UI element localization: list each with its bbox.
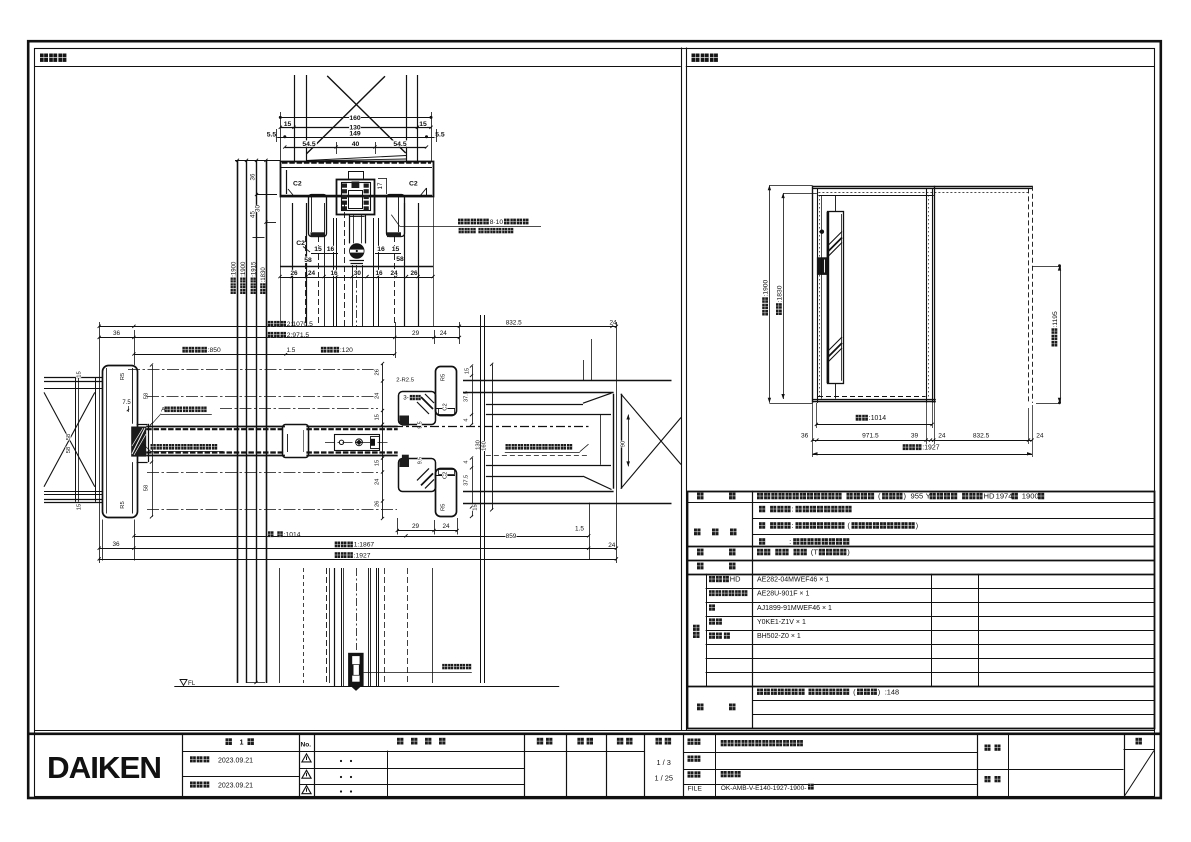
hanger stem and roller bolt xyxy=(349,214,351,243)
recessed pull handle in plan xyxy=(283,425,309,458)
panel bottom edge line xyxy=(280,266,433,268)
svg-text:8·10: 8·10 xyxy=(490,219,504,226)
svg-text:39: 39 xyxy=(911,432,919,439)
svg-text::: : xyxy=(789,537,791,546)
svg-text::1927: :1927 xyxy=(354,552,371,559)
spec table vertical lines xyxy=(752,491,754,729)
FL level mark xyxy=(180,680,187,686)
name content xyxy=(721,740,727,746)
parts rows xyxy=(709,576,715,582)
svg-text:29: 29 xyxy=(412,523,420,530)
svg-text:36: 36 xyxy=(113,330,121,337)
left side channel profile xyxy=(309,195,327,237)
revision dots rows xyxy=(340,760,342,762)
svg-text::148: :148 xyxy=(885,687,899,696)
svg-text::1915: :1915 xyxy=(250,261,257,277)
pocket mouth vertical xyxy=(492,364,494,510)
left X-braced wall end xyxy=(75,377,77,502)
svg-text:58: 58 xyxy=(66,434,72,440)
spec table outer xyxy=(688,492,1155,729)
seitei-bi row xyxy=(190,756,196,762)
svg-text::: : xyxy=(792,505,794,514)
leaf centerline stubs xyxy=(835,195,837,211)
jamb labels xyxy=(119,373,124,380)
pocket end dim 90 xyxy=(628,415,630,467)
tall section marker verticals with 130/160 labels xyxy=(480,315,482,683)
svg-text:24: 24 xyxy=(390,270,398,277)
guide pin label with leader xyxy=(442,664,447,669)
svg-text::1014: :1014 xyxy=(869,415,886,422)
warning triangles xyxy=(302,754,311,762)
title block top thick line xyxy=(28,732,1161,735)
top section: wall stud verticals right pair xyxy=(406,75,408,161)
remarks (bikou) xyxy=(697,704,704,711)
svg-text:1.5: 1.5 xyxy=(286,347,295,354)
label shomenzu (front view title) xyxy=(692,54,700,62)
rotated height labels column xyxy=(230,261,237,294)
svg-text:54.5: 54.5 xyxy=(302,141,315,148)
svg-text:15: 15 xyxy=(374,414,380,420)
header: dai 1 han xyxy=(226,738,232,745)
svg-text:1.5: 1.5 xyxy=(575,526,584,533)
svg-text:9.5: 9.5 xyxy=(417,457,423,464)
panel divider right line xyxy=(686,48,688,731)
panels bottom line xyxy=(35,730,1155,732)
row: omote gu xyxy=(697,563,704,570)
svg-text:16: 16 xyxy=(327,246,335,253)
svg-text:1 / 3: 1 / 3 xyxy=(657,758,671,767)
page cell diagonal xyxy=(1125,751,1155,797)
svg-text:15: 15 xyxy=(284,121,292,128)
right dim chain of center assembly xyxy=(472,366,474,425)
svg-text:26: 26 xyxy=(374,501,380,507)
svg-text:15: 15 xyxy=(473,504,479,510)
upper pocket entrance stud xyxy=(436,367,457,416)
leaf glass hatch bottom xyxy=(828,343,842,357)
svg-text:2023.09.21: 2023.09.21 xyxy=(218,757,253,764)
row: handle (totte) xyxy=(697,549,704,556)
lower latch bracket xyxy=(399,459,436,492)
svg-text:2023.09.21: 2023.09.21 xyxy=(218,783,253,790)
shounin / kakunin / sakusei / shukushaku headers xyxy=(537,738,543,745)
elevation: far right dashed pocket end xyxy=(1028,188,1030,403)
svg-text:58: 58 xyxy=(144,393,150,399)
svg-text:24: 24 xyxy=(938,432,946,439)
dimension line 149 with 5.5 5.5 xyxy=(276,137,436,139)
leaf pivot dot xyxy=(820,230,824,234)
svg-text:C2: C2 xyxy=(443,403,449,410)
lower hidden lines dash-dot xyxy=(147,472,378,474)
svg-text:5.5: 5.5 xyxy=(267,132,277,139)
svg-text:C2: C2 xyxy=(296,240,305,247)
kaitei-bi row xyxy=(190,782,196,788)
svg-text:HD: HD xyxy=(730,575,741,584)
elevation: left jamb xyxy=(812,186,814,403)
svg-text:36: 36 xyxy=(250,173,257,180)
door panel faces in plan xyxy=(146,426,285,428)
title block horizontals xyxy=(183,751,645,753)
jamb pocket mouth xyxy=(137,424,148,426)
page header xyxy=(1136,738,1142,745)
panel divider left line xyxy=(681,48,683,731)
svg-text:24: 24 xyxy=(608,542,616,549)
effective width dim line 1867 xyxy=(99,548,616,550)
door end cap (hatched) xyxy=(131,427,146,457)
svg-text:OK-AMB-V-E140-1927-1900-: OK-AMB-V-E140-1927-1900- xyxy=(721,785,807,792)
dim line 36/971.5/39/24/832.5/24 xyxy=(813,440,1033,442)
svg-text:15: 15 xyxy=(464,368,470,374)
pocket end cap verticals xyxy=(613,394,615,489)
center frame dim chain vertical xyxy=(382,364,384,519)
svg-text:AE282-04MWEF46 × 1: AE282-04MWEF46 × 1 xyxy=(757,577,829,584)
elevation: opening right stile xyxy=(926,188,928,403)
svg-text:24: 24 xyxy=(374,392,380,399)
svg-text:160: 160 xyxy=(349,115,361,122)
rotated dim labels 36 45 30 xyxy=(250,173,256,180)
slanted board above rail box xyxy=(307,156,407,161)
dimension line 130 with 15 15 xyxy=(280,127,431,129)
svg-text:4: 4 xyxy=(463,418,469,421)
row: model (katashiki) xyxy=(697,493,704,500)
svg-text:FILE: FILE xyxy=(688,786,703,793)
svg-text::1014: :1014 xyxy=(284,532,301,539)
elevation: door leaf xyxy=(828,212,844,384)
svg-text:1 / 25: 1 / 25 xyxy=(654,774,673,783)
svg-text:36: 36 xyxy=(112,541,120,548)
svg-text:4: 4 xyxy=(463,460,469,463)
elevation: bottom lines xyxy=(818,396,926,398)
hanger note label with leader xyxy=(391,215,399,227)
svg-text::1900: :1900 xyxy=(230,261,237,277)
svg-text:C2: C2 xyxy=(409,181,418,188)
svg-text:58: 58 xyxy=(66,447,72,453)
left jamb frame profile xyxy=(103,366,138,518)
cap note label (door end) xyxy=(151,444,156,450)
svg-text:26: 26 xyxy=(290,270,298,277)
lock plate with screw circles xyxy=(335,435,380,451)
dim: effective height 1195 (right) xyxy=(1060,266,1062,403)
floor guide pin detail xyxy=(348,653,364,687)
svg-text:2:1070.5: 2:1070.5 xyxy=(287,321,313,328)
svg-text:1:1867: 1:1867 xyxy=(354,542,375,549)
left wall double lines top xyxy=(44,377,102,379)
svg-text:859: 859 xyxy=(506,533,517,540)
svg-text:30: 30 xyxy=(255,205,262,212)
svg-text:15: 15 xyxy=(77,504,83,510)
svg-text:R5: R5 xyxy=(120,501,126,508)
svg-text:1900: 1900 xyxy=(1022,492,1039,501)
right X-braced wall xyxy=(621,394,681,465)
left vertical dimension chain lines xyxy=(237,160,239,683)
svg-text:AJ1899-91MWEF46 × 1: AJ1899-91MWEF46 × 1 xyxy=(757,605,832,612)
svg-text::850: :850 xyxy=(208,347,221,354)
plan top dim line 3 (850 / 1.5 / 120) xyxy=(134,354,395,356)
rail teeth left and right xyxy=(342,184,347,188)
dimension line 26 24 16 30 16 24 26 xyxy=(280,277,433,279)
svg-text:16: 16 xyxy=(377,246,385,253)
svg-text::1927: :1927 xyxy=(922,445,939,452)
inner width dim line 1927 xyxy=(99,559,616,561)
svg-text:36: 36 xyxy=(801,432,809,439)
pocket cap note label xyxy=(506,444,511,450)
svg-text:24: 24 xyxy=(440,330,448,337)
svg-text:): ) xyxy=(878,687,880,696)
svg-text:40: 40 xyxy=(352,141,360,148)
svg-text:15: 15 xyxy=(419,121,427,128)
top section: X cross brace xyxy=(327,76,406,153)
bottom section verticals (wall and door continue) xyxy=(279,568,281,683)
left header underline xyxy=(35,66,681,68)
svg-text:(T: (T xyxy=(811,548,819,557)
door width dim line 1014 / 859 xyxy=(134,536,589,538)
verticals continuing below rail box xyxy=(280,197,282,327)
pocket top extension stubs xyxy=(583,360,585,380)
svg-text:1: 1 xyxy=(240,738,244,747)
parts list group label (rotated) xyxy=(693,625,700,638)
svg-text:29: 29 xyxy=(412,330,420,337)
rail centerline dash-dot xyxy=(128,369,376,371)
leaf glass hatch top xyxy=(828,238,842,252)
svg-text:2:971.5: 2:971.5 xyxy=(287,332,310,339)
plan top dim line 1 (1070.5 / 832.5 / 24) xyxy=(99,326,616,328)
left wall double lines bottom xyxy=(44,491,102,493)
dimension line 160 xyxy=(280,117,431,119)
svg-text:971.5: 971.5 xyxy=(862,432,879,439)
spec table horizontal lines xyxy=(687,502,1155,504)
top section: wall stud verticals left pair xyxy=(294,75,296,161)
small arrow near FL xyxy=(247,682,265,684)
elevation: top rail xyxy=(813,186,1033,188)
svg-text:24: 24 xyxy=(308,270,316,277)
kenmei / zuin labels xyxy=(985,745,991,751)
svg-text:3-: 3- xyxy=(403,395,409,402)
dim pair 29 24 below plan xyxy=(397,530,457,532)
jamb inner right wall lines xyxy=(132,368,134,424)
svg-text:54.5: 54.5 xyxy=(393,141,406,148)
svg-text:C2: C2 xyxy=(443,472,449,479)
svg-text::: : xyxy=(792,521,794,530)
svg-text:26: 26 xyxy=(410,270,418,277)
dim: door height 1830 xyxy=(783,193,785,399)
latch hook pieces xyxy=(402,416,409,426)
upper hidden lines dash-dot xyxy=(147,396,378,398)
svg-text:15: 15 xyxy=(374,460,380,466)
svg-text::1195: :1195 xyxy=(1052,311,1059,328)
plan top dim line 2 (971.5 / 29 / 24) xyxy=(99,337,459,339)
svg-text:17: 17 xyxy=(377,182,384,189)
label danmenzu (section view title) xyxy=(40,54,48,62)
svg-text:832.5: 832.5 xyxy=(506,320,522,327)
door panel skins (thick dashed) xyxy=(146,428,285,430)
top rail box (hanging rail housing) xyxy=(281,162,434,197)
svg-text::1830: :1830 xyxy=(260,267,267,283)
svg-text:C2: C2 xyxy=(293,181,302,188)
lower pocket entrance stud xyxy=(436,469,457,517)
svg-text:15: 15 xyxy=(77,371,83,377)
right header underline xyxy=(686,66,1155,68)
svg-text:16: 16 xyxy=(375,270,383,277)
svg-text:130: 130 xyxy=(475,440,481,450)
door edge gap line xyxy=(821,195,823,399)
svg-text:58: 58 xyxy=(144,485,150,491)
svg-text:90: 90 xyxy=(620,441,626,447)
svg-text:R5: R5 xyxy=(441,374,447,381)
svg-text:Y0KE1-Z1V × 1: Y0KE1-Z1V × 1 xyxy=(757,619,806,626)
svg-text:58: 58 xyxy=(396,256,404,263)
svg-text:149: 149 xyxy=(349,131,361,138)
svg-text::1830: :1830 xyxy=(776,285,783,302)
svg-text:24: 24 xyxy=(442,523,450,530)
dim extension verticals xyxy=(276,129,278,142)
dimension line 54.5 40 54.5 xyxy=(285,147,427,149)
svg-text:2-R2.5: 2-R2.5 xyxy=(396,377,414,383)
svg-text:24: 24 xyxy=(374,478,380,485)
svg-text:9.5: 9.5 xyxy=(417,421,423,428)
pocket wall lines xyxy=(463,380,672,382)
upper latch bracket xyxy=(399,392,436,425)
svg-text:160: 160 xyxy=(482,441,488,451)
svg-text::1900: :1900 xyxy=(240,261,247,277)
rows: finish (shiage) xyxy=(694,529,701,536)
svg-text:24: 24 xyxy=(1036,432,1044,439)
dim: inner height 1900 (left outer) xyxy=(769,185,771,402)
svg-text:832.5: 832.5 xyxy=(973,432,990,439)
svg-text:No.: No. xyxy=(301,742,312,749)
svg-text:16: 16 xyxy=(330,270,338,277)
kaitei rireki header xyxy=(397,738,403,745)
svg-text:58: 58 xyxy=(304,257,312,264)
svg-text:R5: R5 xyxy=(441,504,447,511)
svg-text:15: 15 xyxy=(314,246,322,253)
svg-text:HD: HD xyxy=(984,492,995,501)
svg-text:R5: R5 xyxy=(120,373,126,380)
svg-text:AE28U-901F × 1: AE28U-901F × 1 xyxy=(757,591,809,598)
leaf handle block xyxy=(817,257,827,275)
svg-text::120: :120 xyxy=(340,347,353,354)
extension verticals bottom xyxy=(134,520,136,561)
C2 corner marks in rail box xyxy=(286,170,288,194)
svg-text:955: 955 xyxy=(911,492,924,501)
svg-text:30: 30 xyxy=(354,270,362,277)
right side channel profile xyxy=(387,195,405,237)
title block verticals xyxy=(182,734,184,797)
labels 15 16 / 16 15 xyxy=(314,246,322,252)
floor line xyxy=(174,686,559,688)
svg-text:26: 26 xyxy=(374,369,380,375)
svg-text:BH502-Z0 × 1: BH502-Z0 × 1 xyxy=(757,633,801,640)
svg-text::1900: :1900 xyxy=(763,279,770,296)
dim: inner width 1927 xyxy=(813,454,1033,456)
svg-text:DAIKEN: DAIKEN xyxy=(47,750,161,785)
svg-text:1974: 1974 xyxy=(996,492,1013,501)
dim extension verticals xyxy=(99,322,101,563)
svg-text:37.5: 37.5 xyxy=(463,475,469,486)
name rows labels xyxy=(688,739,694,745)
hanger bracket assembly xyxy=(337,180,375,215)
dim: door width 1014 xyxy=(816,424,932,426)
svg-text:15: 15 xyxy=(392,246,400,253)
svg-text:7.5: 7.5 xyxy=(122,400,131,406)
svg-text:24: 24 xyxy=(609,320,617,327)
